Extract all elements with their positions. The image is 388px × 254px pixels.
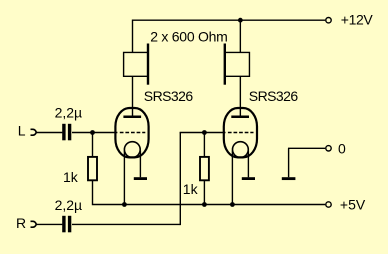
svg-text:2,2µ: 2,2µ [55,104,83,120]
svg-text:0: 0 [338,140,346,156]
svg-text:2,2µ: 2,2µ [55,197,83,213]
svg-text:1k: 1k [63,169,79,185]
svg-text:+12V: +12V [341,12,374,28]
svg-text:2 x 600 Ohm: 2 x 600 Ohm [150,29,227,45]
svg-text:1k: 1k [183,181,199,197]
svg-text:SRS326: SRS326 [249,88,299,104]
svg-text:L: L [18,122,26,138]
svg-text:+5V: +5V [340,196,366,212]
svg-text:SRS326: SRS326 [144,88,194,104]
svg-text:R: R [16,215,26,231]
